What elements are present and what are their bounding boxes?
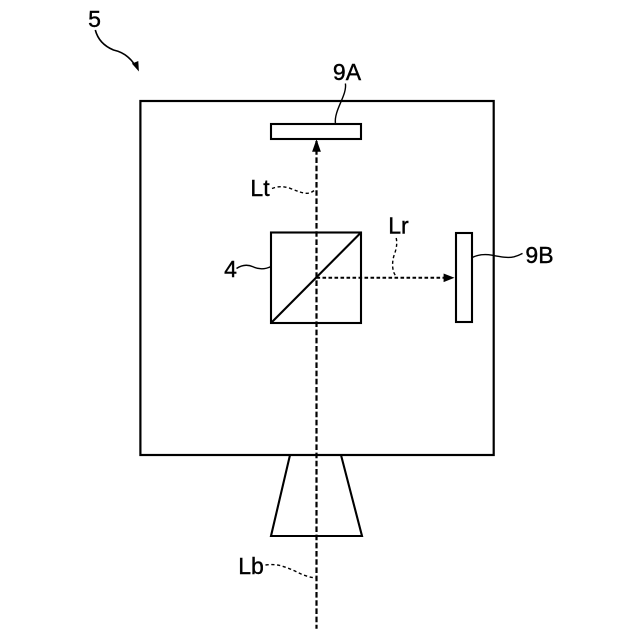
beam Lt arrowhead [312, 139, 321, 152]
svg-text:Lr: Lr [388, 213, 409, 239]
beam Lr dashed horizontal [317, 277, 446, 279]
dashed leader Lr [393, 238, 397, 277]
dashed leader Lb [266, 565, 316, 578]
beam Lt dashed vertical [315, 141, 317, 629]
detector 9B [456, 233, 472, 322]
svg-text:9A: 9A [333, 59, 362, 85]
housing box 5 [140, 101, 493, 455]
svg-text:Lt: Lt [250, 175, 270, 201]
leader from 9A to detector 9A [335, 84, 345, 124]
beam Lr arrowhead [444, 274, 455, 283]
svg-text:9B: 9B [525, 242, 553, 268]
nozzle housing [271, 455, 362, 536]
beam splitter 4 [271, 233, 361, 324]
leader arrow from 5 [95, 30, 139, 72]
leader from detector 9B to label 9B [472, 253, 523, 257]
leader from 4 to beam splitter [237, 265, 272, 269]
dashed leader Lt [272, 187, 316, 194]
beam splitter diagonal [272, 233, 361, 323]
svg-text:5: 5 [88, 6, 101, 32]
svg-text:Lb: Lb [238, 553, 264, 579]
detector 9A [271, 124, 361, 139]
svg-text:4: 4 [224, 256, 237, 282]
